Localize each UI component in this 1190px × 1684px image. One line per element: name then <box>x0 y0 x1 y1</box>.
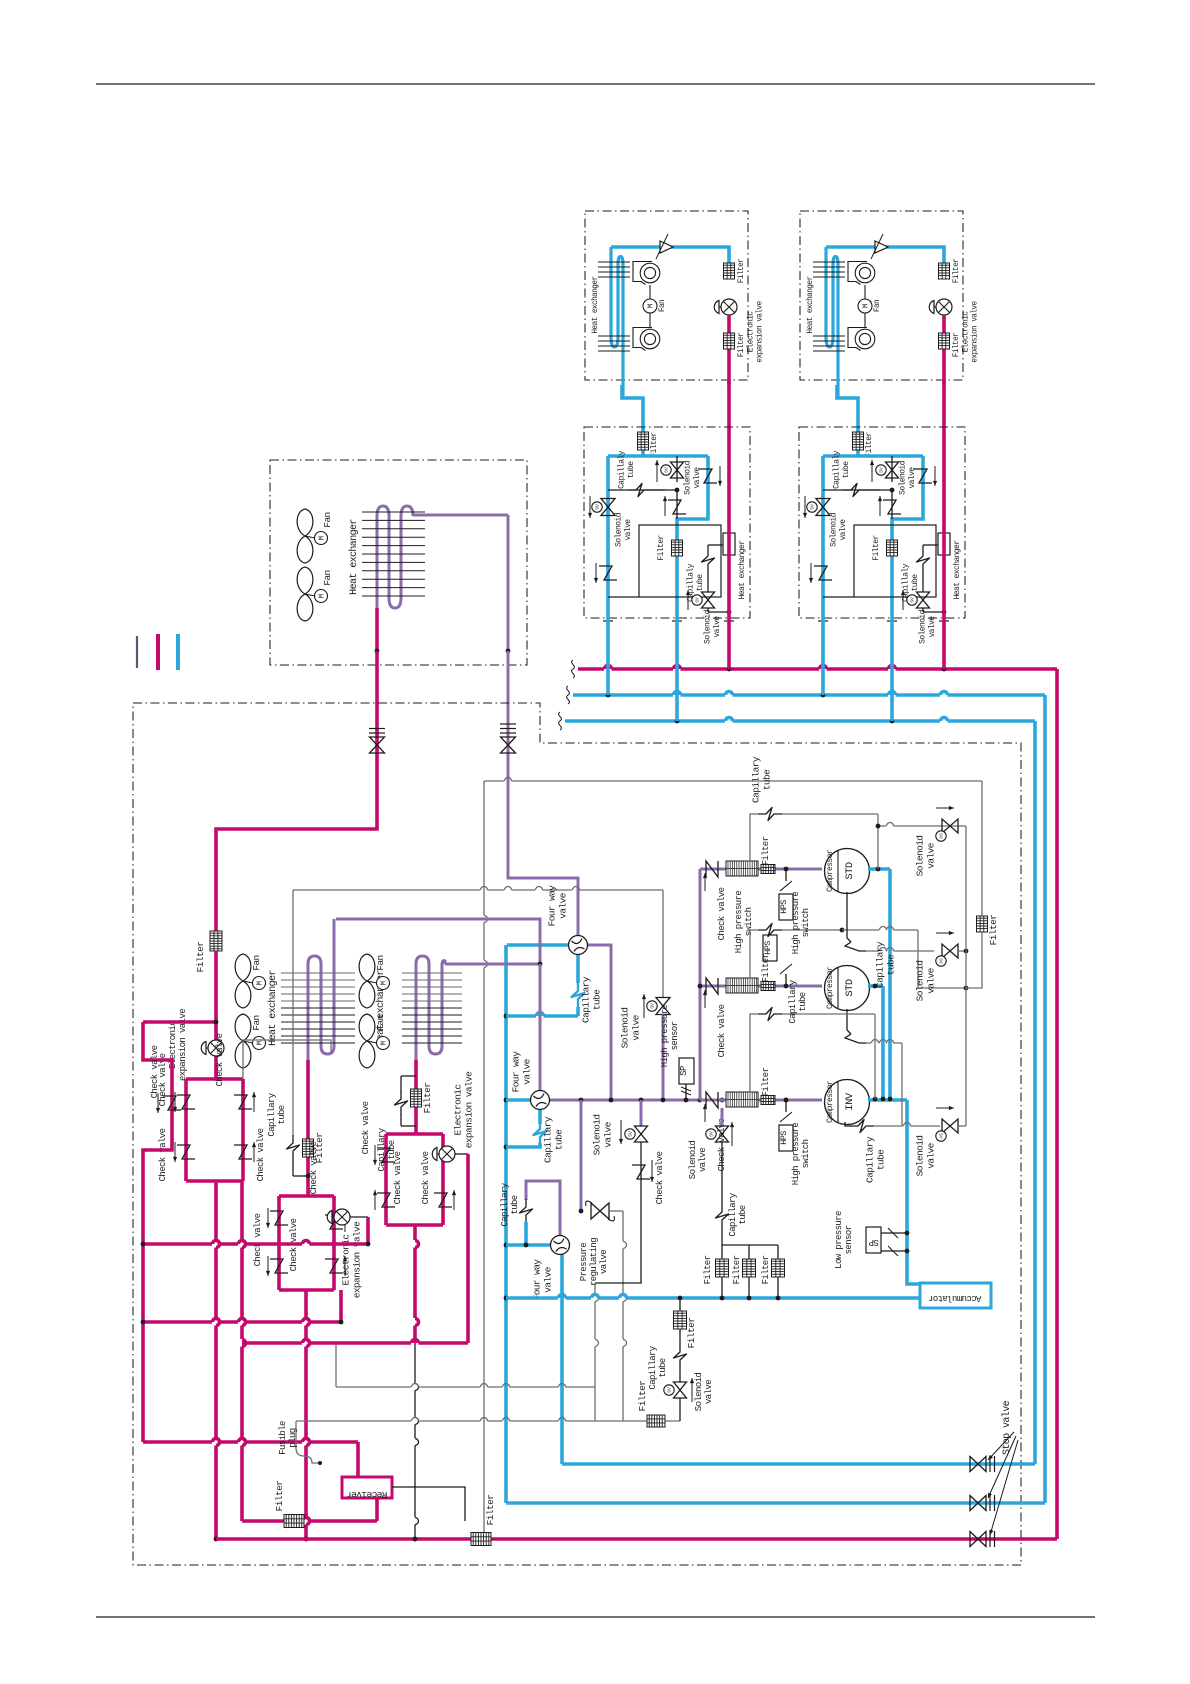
outdoor fan 2 <box>235 1014 251 1041</box>
coil 1 gas riser <box>333 919 336 964</box>
svg-text:Check valve: Check valve <box>421 1151 431 1204</box>
high pressure switch 3 <box>785 1100 787 1112</box>
fan blower upper <box>640 263 660 283</box>
heat exchanger coil <box>611 247 623 398</box>
svg-text:Compressor: Compressor <box>826 1080 835 1123</box>
coil2 gas feed <box>445 963 540 966</box>
svg-text:valve: valve <box>543 1266 554 1292</box>
stop valve bottom 2 <box>970 1496 986 1511</box>
svg-text:Check valve: Check valve <box>253 1213 263 1266</box>
branch end ticks <box>603 620 613 622</box>
svg-text:Compressor: Compressor <box>826 966 835 1009</box>
gas stop valve <box>508 712 578 935</box>
receiver outlet <box>375 1498 379 1521</box>
svg-text:AS: AS <box>939 958 945 964</box>
svg-text:tube: tube <box>762 769 773 790</box>
four way valve 2 <box>506 1098 531 1102</box>
svg-text:High pressure: High pressure <box>791 1123 801 1186</box>
check valve compressor 2 <box>706 978 718 994</box>
svg-text:Capillaly: Capillaly <box>901 563 910 602</box>
filter upper <box>939 263 950 279</box>
equalize line <box>335 1343 337 1387</box>
svg-text:HPS: HPS <box>779 900 789 914</box>
capillary + solenoid to liquid <box>923 544 938 546</box>
svg-text:Receiver: Receiver <box>347 1489 388 1500</box>
svg-text:Filter: Filter <box>195 942 206 973</box>
four way valve 1 <box>507 943 569 947</box>
svg-text:Check valve: Check valve <box>393 1151 403 1204</box>
svg-text:Capillaly: Capillaly <box>617 450 626 489</box>
check valve mid <box>891 490 893 519</box>
svg-text:Solenoid: Solenoid <box>688 1141 698 1180</box>
svg-text:AS: AS <box>939 1133 945 1139</box>
svg-text:Fusible: Fusible <box>278 1421 288 1455</box>
break mark <box>572 660 575 678</box>
unload line 1 <box>878 825 886 827</box>
BS drop lines <box>606 618 610 695</box>
fan motor <box>649 285 651 327</box>
svg-text:tube: tube <box>510 1195 520 1214</box>
outdoor heat exchanger 1 fins <box>281 972 355 974</box>
check valve compressor 3 <box>706 1092 718 1108</box>
solenoid valve mid <box>891 456 893 482</box>
svg-text:Fan: Fan <box>251 955 262 970</box>
filter mid <box>672 540 683 556</box>
filter mid <box>887 540 898 556</box>
svg-text:Filter: Filter <box>732 1255 742 1284</box>
oil filter <box>748 1245 750 1259</box>
indoor unit 1 gas pipe <box>611 247 729 263</box>
gas bus 1 (magenta liquid line) <box>578 667 604 671</box>
svg-text:High pressure: High pressure <box>791 892 801 955</box>
inv oil drain <box>845 1122 851 1126</box>
filter on gas inlet <box>856 434 860 456</box>
svg-text:Filter: Filter <box>686 1318 697 1349</box>
svg-text:Solenoid: Solenoid <box>918 609 927 643</box>
compressor 1 suction line <box>700 868 822 871</box>
electronic expansion valve <box>936 299 952 315</box>
electronic expansion valve <box>721 299 737 315</box>
svg-text:Accumulator: Accumulator <box>928 1293 981 1303</box>
svg-text:Capillary: Capillary <box>865 1136 876 1183</box>
pressure regulating valve <box>591 1203 609 1219</box>
hx tap on liquid pipe <box>723 533 735 555</box>
svg-text:SP: SP <box>679 1066 689 1076</box>
coil1 capillary bypass <box>292 890 294 1136</box>
svg-text:Check valve: Check valve <box>717 1004 727 1057</box>
outdoor heat exchanger 1 coil <box>308 956 334 1060</box>
svg-text:tube: tube <box>277 1105 287 1124</box>
suction bus to accumulator <box>506 1296 558 1300</box>
capillary branch <box>608 489 665 491</box>
svg-text:expansion valve: expansion valve <box>757 300 765 362</box>
bridge 2 drop <box>304 1290 308 1318</box>
svg-text:tube: tube <box>738 1205 748 1224</box>
svg-text:Fan: Fan <box>874 300 882 312</box>
svg-text:tube: tube <box>798 992 808 1011</box>
svg-text:switch: switch <box>801 908 811 937</box>
svg-text:Solenoid: Solenoid <box>898 460 907 494</box>
page top rule <box>96 83 1095 85</box>
svg-text:Filter: Filter <box>761 1255 771 1284</box>
receiver <box>342 1477 392 1498</box>
svg-text:Filter: Filter <box>738 259 746 283</box>
svg-text:Filter: Filter <box>953 333 961 357</box>
left branch <box>821 456 825 618</box>
hx tap on liquid pipe <box>938 533 950 555</box>
compressor 3 discharge <box>868 1098 907 1102</box>
svg-text:valve: valve <box>599 1250 609 1274</box>
filter 3 <box>761 1096 775 1105</box>
bypass check valve <box>143 1022 172 1442</box>
BS unit 2 enclosure <box>799 427 965 618</box>
svg-text:Check valve: Check valve <box>717 887 727 940</box>
svg-text:Filter: Filter <box>485 1495 496 1526</box>
svg-text:valve: valve <box>693 467 702 489</box>
svg-text:tube: tube <box>658 1358 668 1377</box>
svg-text:Filter: Filter <box>761 836 771 865</box>
svg-text:valve: valve <box>522 1058 533 1084</box>
svg-text:valve: valve <box>908 467 917 489</box>
coil 2 gas riser <box>442 961 445 966</box>
indoor unit 2 enclosure <box>800 211 963 380</box>
liquid crossover top <box>143 1020 216 1024</box>
bottom liquid main <box>216 1537 1057 1541</box>
coil 1 liquid drop <box>306 1060 310 1196</box>
svg-text:Pressure: Pressure <box>579 1243 589 1282</box>
electronic expansion valve 1 <box>214 951 218 1079</box>
liquid line filter <box>210 931 222 951</box>
filter lower <box>939 333 950 349</box>
svg-text:Solenoid: Solenoid <box>915 1136 926 1177</box>
liquid pipe <box>942 315 946 385</box>
svg-text:M: M <box>256 981 264 985</box>
svg-text:Heat exchanger: Heat exchanger <box>738 540 747 600</box>
heat exchanger fins <box>813 261 845 263</box>
low pressure sensor <box>866 1227 881 1253</box>
outdoor heat exchanger 2 coil <box>416 956 442 1060</box>
subcool heat exchanger box <box>854 525 936 597</box>
hot gas solenoid drop <box>662 890 664 998</box>
branch end ticks <box>818 620 828 622</box>
liquid header C <box>242 1341 302 1345</box>
svg-text:Heat exchanger: Heat exchanger <box>953 540 962 600</box>
svg-text:plug: plug <box>288 1428 298 1447</box>
check valve compressor 1 <box>706 861 718 877</box>
stop valve bottom 3 (liquid) <box>970 1532 986 1547</box>
svg-text:HPS: HPS <box>779 1131 789 1145</box>
svg-text:M: M <box>256 1041 264 1045</box>
svg-text:SV: SV <box>650 1003 656 1009</box>
prv riser <box>580 1100 583 1211</box>
indoor unit 1 liquid pipe down <box>727 380 731 453</box>
coil 2 liquid drop <box>414 1060 418 1134</box>
bridge 1 right column <box>240 1181 244 1240</box>
svg-text:expansion valve: expansion valve <box>178 1009 188 1081</box>
coil1 filter <box>303 1139 314 1157</box>
solenoid valve left <box>601 499 615 516</box>
svg-text:M: M <box>648 303 656 308</box>
svg-text:tube: tube <box>627 461 636 479</box>
check valve right branch <box>699 469 717 483</box>
svg-text:High pressure: High pressure <box>734 891 744 954</box>
legend line magenta <box>156 634 160 670</box>
svg-text:Solenoid: Solenoid <box>703 609 712 643</box>
eev3 liquid riser <box>466 1154 470 1343</box>
svg-text:Check valve: Check valve <box>215 1033 225 1086</box>
svg-text:INV: INV <box>844 1092 856 1110</box>
svg-text:SV: SV <box>695 597 701 603</box>
svg-text:Filter: Filter <box>988 915 999 946</box>
svg-text:Compressor: Compressor <box>826 849 835 892</box>
svg-text:M: M <box>380 981 388 985</box>
solenoid valve unload 2 <box>942 944 958 958</box>
subcool heat exchanger box <box>639 525 721 597</box>
coil1 gas feed <box>336 919 540 964</box>
capillary branch <box>823 489 880 491</box>
svg-text:Solenoid: Solenoid <box>614 512 623 546</box>
oil return capillary 2 <box>750 930 758 979</box>
filter on bottom liquid main <box>471 1533 491 1546</box>
filter upper <box>724 263 735 279</box>
svg-text:valve: valve <box>839 519 848 541</box>
svg-text:valve: valve <box>704 1380 714 1404</box>
compressor 2 discharge <box>868 984 883 988</box>
fan lower <box>297 567 313 594</box>
svg-text:Filter: Filter <box>703 1255 713 1284</box>
svg-text:SV: SV <box>667 1387 673 1393</box>
svg-text:M: M <box>380 1041 388 1045</box>
inv compressor suction tee <box>907 1100 920 1284</box>
svg-text:valve: valve <box>624 519 633 541</box>
svg-text:Solenoid: Solenoid <box>915 836 926 877</box>
BS unit 1 enclosure <box>584 427 750 618</box>
right branch <box>892 456 923 618</box>
hot gas bus <box>293 889 480 891</box>
svg-text:Capillary: Capillary <box>875 941 886 988</box>
page bottom rule <box>96 1616 1095 1618</box>
svg-text:Check valve: Check valve <box>150 1045 160 1098</box>
four way valve 2 feed <box>539 964 542 1091</box>
receiver feed line <box>143 1440 212 1444</box>
svg-text:Electronic: Electronic <box>963 311 971 353</box>
svg-text:Filter: Filter <box>637 1381 648 1412</box>
four way valve 3 <box>506 1243 551 1247</box>
bridge 2 side link <box>339 1290 343 1322</box>
svg-text:M: M <box>318 594 326 598</box>
svg-text:Capillaly: Capillaly <box>832 450 841 489</box>
solenoid valve hot gas <box>656 998 670 1015</box>
solenoid valve unload 3 <box>942 1119 958 1133</box>
svg-text:Fan: Fan <box>322 570 333 585</box>
discharge bus (top) <box>484 780 504 782</box>
fan blower lower <box>640 329 660 349</box>
coil2 capillary bypass <box>401 1075 416 1077</box>
solenoid valve left <box>816 499 830 516</box>
suction riser to compressors <box>699 869 702 1100</box>
coil2 filter <box>411 1089 422 1107</box>
liquid outlet <box>375 608 379 651</box>
svg-text:Filter: Filter <box>953 259 961 283</box>
receiver equalize line <box>392 1487 465 1521</box>
high pressure sensor <box>679 1058 694 1084</box>
svg-text:SV: SV <box>709 1131 715 1137</box>
fan motor <box>864 285 866 327</box>
svg-text:Filter: Filter <box>274 1481 285 1512</box>
svg-text:Filter: Filter <box>422 1083 433 1114</box>
check valve right branch <box>914 469 932 483</box>
svg-text:Fan: Fan <box>659 300 667 312</box>
svg-text:Capillary: Capillary <box>500 1182 510 1226</box>
svg-text:Four way: Four way <box>511 1051 522 1093</box>
check valve bridge 2 <box>279 1196 334 1290</box>
svg-text:tube: tube <box>911 574 920 592</box>
fan upper <box>297 509 313 536</box>
svg-text:Filter: Filter <box>657 535 666 561</box>
suction riser right <box>1043 695 1047 1503</box>
fan blower lower <box>855 329 875 349</box>
svg-text:Capillary: Capillary <box>648 1345 658 1389</box>
svg-text:regulating: regulating <box>589 1238 599 1286</box>
oil separator 3 <box>726 1092 758 1107</box>
outdoor unit enclosure <box>133 703 1021 1565</box>
prv drain <box>622 1211 624 1241</box>
indoor unit 2 liquid pipe down <box>942 380 946 453</box>
gas outlet <box>507 515 510 651</box>
flow arrow <box>660 241 673 253</box>
svg-text:Four way: Four way <box>532 1259 543 1301</box>
svg-text:sensor: sensor <box>844 1225 854 1254</box>
heat exchanger coil <box>377 506 508 608</box>
svg-text:valve: valve <box>631 1014 642 1040</box>
svg-text:Electronic: Electronic <box>453 1084 464 1136</box>
hp gas line bottom <box>562 1462 1035 1466</box>
svg-text:Solenoid: Solenoid <box>829 512 838 546</box>
svg-text:Check valve: Check valve <box>361 1101 371 1154</box>
svg-text:Capillary: Capillary <box>543 1116 554 1163</box>
gas header <box>823 454 923 458</box>
svg-text:valve: valve <box>698 1148 708 1172</box>
svg-text:Solenoid: Solenoid <box>683 460 692 494</box>
svg-text:SV: SV <box>810 504 816 510</box>
hx bottom link <box>608 596 639 598</box>
svg-text:Check valve: Check valve <box>158 1128 168 1181</box>
svg-text:SV: SV <box>879 467 885 473</box>
outdoor fan 4 <box>359 1014 375 1041</box>
bridge 3 drop <box>413 1225 417 1240</box>
oil filters trio <box>721 1108 724 1126</box>
liquid pipe through <box>942 453 946 618</box>
svg-text:STD: STD <box>844 862 856 879</box>
compressor 3 suction line <box>700 1099 822 1102</box>
oil filter <box>721 1245 723 1259</box>
check valve left branch <box>814 566 832 580</box>
oil separator 2 <box>726 978 758 993</box>
svg-text:Heat exchanger: Heat exchanger <box>592 276 600 333</box>
svg-text:valve: valve <box>603 1121 614 1147</box>
svg-text:Fan: Fan <box>375 955 386 970</box>
svg-text:AS: AS <box>939 833 945 839</box>
svg-text:Capillary: Capillary <box>267 1092 277 1136</box>
svg-text:Heat exchanger: Heat exchanger <box>348 519 360 595</box>
svg-text:SP: SP <box>869 1237 879 1247</box>
high pressure switch 2 <box>785 974 787 986</box>
high pressure switch 1 <box>785 869 787 881</box>
svg-text:tube: tube <box>886 954 897 975</box>
bridge1 top gray link <box>243 1040 331 1079</box>
svg-text:Capillary: Capillary <box>728 1192 738 1236</box>
indoor unit 1 gas pipe jog <box>622 385 643 434</box>
check valve bridge 1 <box>186 1079 243 1181</box>
filter 1 <box>761 865 775 874</box>
electronic expansion valve 3 <box>439 1146 455 1162</box>
svg-text:expansion valve: expansion valve <box>464 1071 475 1148</box>
svg-text:Filter: Filter <box>872 535 881 561</box>
upper-left heat exchanger enclosure <box>270 460 527 665</box>
svg-text:Check valve: Check valve <box>309 1141 319 1194</box>
compressor 2 suction line <box>700 985 822 988</box>
indoor unit 1 enclosure <box>585 211 748 380</box>
svg-text:valve: valve <box>928 616 937 638</box>
svg-text:expansion valve: expansion valve <box>352 1221 363 1298</box>
indoor unit 2 gas pipe jog <box>837 385 858 434</box>
svg-text:tube: tube <box>554 1129 565 1150</box>
hx bottom link <box>823 596 854 598</box>
filter on receiver outlet <box>284 1515 304 1528</box>
svg-text:SV: SV <box>664 467 670 473</box>
svg-text:M: M <box>863 303 871 308</box>
svg-text:Filter: Filter <box>761 1067 771 1096</box>
discharge filter <box>977 916 988 932</box>
svg-text:Solenoid: Solenoid <box>620 1008 631 1049</box>
liquid header A <box>143 1242 212 1246</box>
svg-text:SV: SV <box>595 504 601 510</box>
solenoid + check drop <box>640 1100 643 1126</box>
heat exchanger coil <box>826 247 838 398</box>
svg-text:sensor: sensor <box>670 1021 680 1050</box>
suction line bottom <box>506 1501 1045 1505</box>
svg-text:Filter: Filter <box>865 432 874 458</box>
svg-text:Solenoid: Solenoid <box>694 1373 704 1412</box>
svg-text:expansion valve: expansion valve <box>972 300 980 362</box>
oil drain header <box>296 1420 411 1422</box>
liquid drain riser <box>483 781 485 915</box>
comp1 oil drain <box>847 892 851 942</box>
svg-text:M: M <box>318 536 326 540</box>
svg-text:HPS: HPS <box>763 941 773 955</box>
left branch <box>606 456 610 618</box>
compressor 3 <box>825 1080 870 1125</box>
svg-text:SV: SV <box>628 1131 634 1137</box>
liquid pipe through <box>727 453 731 618</box>
right branch <box>677 456 708 618</box>
oil return capillary 3 <box>750 1014 758 1093</box>
filter 2 <box>761 982 775 991</box>
svg-text:Heat exchanger: Heat exchanger <box>807 276 815 333</box>
liquid pipe <box>727 315 731 385</box>
legend line blue <box>176 634 180 670</box>
svg-text:Capillary: Capillary <box>751 756 762 803</box>
comp2 oil drain <box>847 1009 851 1034</box>
svg-text:Solenoid: Solenoid <box>592 1115 603 1156</box>
legend line gray <box>136 636 138 668</box>
unload collector <box>965 826 967 1126</box>
heat exchanger fins <box>598 261 630 263</box>
solenoid valve mid <box>676 456 678 482</box>
svg-text:Fan: Fan <box>322 512 333 527</box>
liquid header B <box>143 1320 212 1324</box>
accumulator <box>920 1283 991 1308</box>
